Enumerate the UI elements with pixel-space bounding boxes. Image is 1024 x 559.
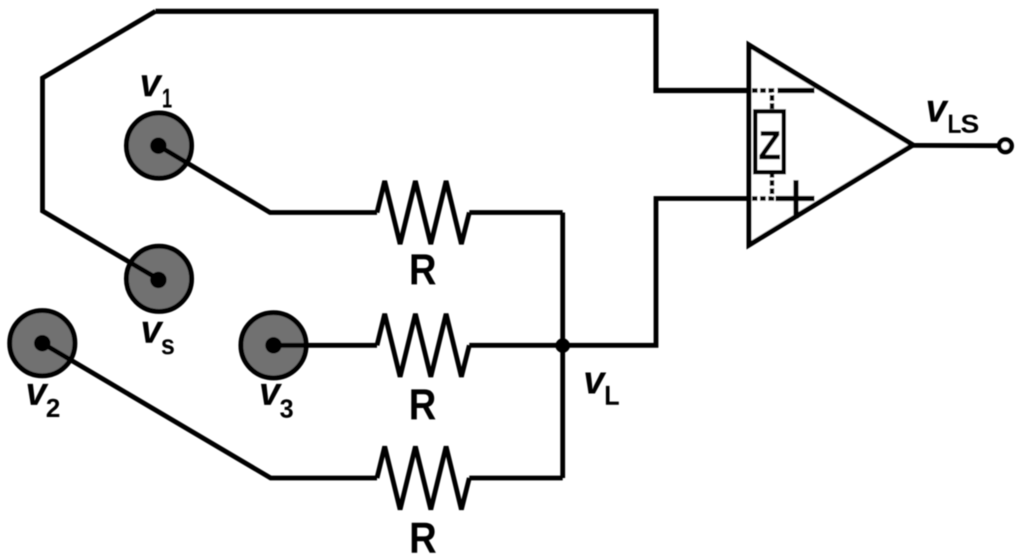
source v3 body [241, 313, 306, 378]
source vs body [126, 246, 191, 311]
label vs letter v [142, 322, 163, 343]
dashed link from inverting input to impedance Z [752, 91, 772, 113]
output terminal circle [999, 140, 1012, 153]
label vs subscript s [162, 339, 174, 354]
label v2 subscript 2 [47, 399, 60, 417]
label v1 letter v [142, 75, 163, 96]
wire R1 to node column [469, 210, 562, 215]
label v3 letter v [261, 384, 282, 405]
label v2 letter v [27, 384, 48, 405]
impedance Z box [755, 111, 784, 172]
label vLS subscript S [961, 115, 978, 133]
resistor R3 [377, 447, 469, 510]
label v1 subscript 1 [163, 89, 172, 108]
source v2 terminal dot [34, 335, 50, 351]
plus sign of non-inverting input [776, 180, 815, 218]
wire op-amp output [912, 143, 1000, 148]
wire from source v3 to resistor R2 [274, 343, 378, 348]
minus sign of inverting input [778, 88, 815, 93]
source v3 terminal dot [265, 337, 281, 353]
source v2 body [10, 311, 75, 376]
wire R2 through node vL to op-amp non-inverting input [469, 199, 749, 346]
resistor R2 [377, 314, 469, 377]
source vs terminal dot [150, 272, 166, 288]
label vL letter v [585, 372, 606, 393]
node vL junction dot [555, 338, 570, 353]
value label R of R2 [411, 389, 435, 419]
source v1 body [126, 113, 191, 178]
value label R of R1 [412, 254, 436, 284]
source v1 terminal dot [150, 138, 166, 154]
label vL subscript L [606, 386, 619, 405]
resistor R1 [377, 181, 469, 244]
label vLS letter v [928, 101, 949, 122]
value label R of R3 [412, 523, 436, 553]
wire from source v1 to resistor R1 [159, 146, 378, 213]
wire left diagonal and vertical into source vs [43, 11, 160, 279]
wire top rail to op-amp inverting input [156, 11, 750, 90]
op-amp U1 triangle [749, 45, 913, 245]
label v3 subscript 3 [280, 399, 293, 418]
label vLS subscript L [949, 115, 961, 133]
value label Z [759, 131, 780, 159]
wire R3 to node column [469, 476, 562, 481]
wire from source v2 to resistor R3 [42, 343, 377, 478]
wire vertical node column [560, 213, 565, 479]
dashed link from impedance Z to non-inverting input [752, 172, 772, 199]
